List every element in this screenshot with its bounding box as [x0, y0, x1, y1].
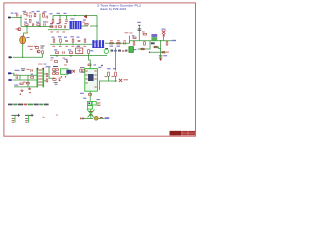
wire U1 out b	[44, 80, 46, 82]
buzzer B2	[25, 114, 34, 123]
LED D5	[104, 49, 108, 54]
transistor Q5 cross	[87, 109, 95, 118]
transistor Q6 block	[129, 47, 134, 53]
junction node D	[160, 40, 161, 41]
resistor R9	[59, 26, 62, 28]
resistor R33	[46, 74, 48, 77]
junction H1	[115, 80, 116, 81]
wire node A vertical	[20, 15, 22, 27]
wire F rail2	[13, 79, 36, 81]
label C5	[43, 21, 46, 22]
label F left	[14, 85, 18, 86]
label OUT arrow	[172, 40, 176, 41]
wire G down	[49, 67, 53, 78]
label F top2	[27, 69, 30, 70]
wire X3 to rail1	[12, 73, 14, 75]
label R22	[58, 36, 61, 37]
marker G0	[53, 66, 58, 68]
resistor R2	[34, 13, 36, 16]
border frame	[4, 3, 196, 136]
transistor Q3 block	[87, 101, 96, 105]
resistor R44	[53, 79, 56, 81]
resistor R5	[37, 24, 40, 26]
resistor R46	[144, 42, 146, 45]
resistor R48	[88, 64, 91, 66]
resistor R38 marks	[97, 103, 101, 105]
title block fill	[170, 131, 196, 135]
diode D4 mark	[163, 35, 165, 36]
arrow left mark	[149, 51, 151, 53]
label X1	[11, 13, 14, 14]
junction E1b	[72, 44, 73, 45]
value C5	[46, 21, 48, 22]
label R15	[110, 46, 114, 47]
label R26	[68, 49, 71, 50]
capacitor C14	[16, 76, 17, 79]
resistor R4	[25, 24, 28, 26]
wire stub B1	[52, 16, 54, 20]
note text seg7	[39, 104, 43, 106]
resistor R19	[35, 47, 38, 49]
label R3	[37, 11, 40, 12]
wire up to U3	[129, 36, 131, 44]
wire F rail3	[14, 86, 37, 88]
ground GND1	[159, 58, 162, 61]
IC U2 outline	[85, 69, 98, 92]
label output Q3	[97, 99, 100, 100]
resistor R1	[24, 13, 27, 15]
wire J2 rail	[105, 42, 130, 44]
label F c	[31, 74, 34, 75]
capacitor C16	[31, 69, 32, 71]
label R37	[113, 68, 116, 69]
value R22	[59, 46, 62, 47]
value Q1	[16, 28, 19, 29]
wire X1 to node A	[12, 17, 21, 19]
resistor R12	[143, 33, 146, 35]
capacitor C12	[63, 51, 64, 54]
wire H rail	[99, 80, 117, 82]
note text seg3	[18, 104, 24, 106]
IC U1 ladder	[37, 68, 44, 88]
pin dot G b	[65, 76, 66, 77]
note text seg4	[24, 104, 28, 106]
label LA1	[27, 37, 30, 38]
wire mid rail 2	[151, 51, 166, 53]
wire R27 to U2	[89, 56, 91, 63]
wire F v2	[27, 75, 29, 87]
ground GND2	[20, 89, 23, 92]
connector X3 arrow	[8, 72, 12, 74]
value R8	[51, 31, 54, 32]
value R7	[58, 23, 61, 24]
resistor R1b	[29, 19, 31, 22]
label note E	[64, 64, 67, 65]
resistor R8	[50, 26, 53, 28]
title block divider lines	[181, 131, 195, 135]
wire C rail	[130, 40, 172, 42]
label R1	[23, 11, 26, 12]
wire top rail	[53, 15, 97, 17]
resistor R40b	[56, 69, 59, 71]
transistor Q2	[37, 50, 40, 53]
junction node E	[22, 57, 23, 58]
resistor R41	[53, 73, 56, 75]
supply flag VCC1	[138, 25, 141, 26]
marker G2	[80, 67, 85, 69]
LED D2	[89, 112, 93, 116]
value R25	[56, 55, 59, 56]
label C6	[64, 13, 67, 14]
title block dark section	[170, 131, 182, 135]
label R36 value	[105, 76, 108, 77]
resistor R42	[80, 69, 82, 72]
label C18	[163, 55, 167, 56]
lamp LA1	[20, 36, 26, 44]
label D1	[83, 20, 86, 21]
label C left	[132, 35, 135, 36]
resistor R43	[83, 69, 85, 72]
marker D1	[41, 46, 45, 48]
diode D1	[84, 15, 87, 18]
wire Q2 down	[40, 54, 43, 57]
value R3	[42, 12, 45, 13]
resistor R13	[154, 46, 157, 48]
wire down to T1	[24, 27, 28, 37]
label E row2b2	[63, 58, 66, 59]
wire VCC1 down	[138, 27, 140, 41]
junction B rail b	[74, 15, 75, 16]
capacitor C5	[44, 23, 45, 26]
marker G1	[53, 71, 56, 73]
wire mid right	[138, 41, 151, 49]
label R23	[71, 36, 74, 37]
wire rail E2	[50, 55, 107, 57]
connector X1 input arrow	[8, 17, 12, 19]
wire R27 stub	[88, 54, 90, 56]
solder blob	[26, 32, 28, 34]
wire U2 bottom	[89, 91, 91, 97]
mark row1 d	[122, 50, 124, 52]
junction A rail	[26, 26, 27, 27]
connector X4 arrow	[8, 79, 12, 81]
junction node B	[39, 26, 40, 27]
resistor R47	[166, 42, 168, 45]
label K1 pins	[53, 78, 56, 79]
wire branch E	[153, 47, 161, 49]
wire F rail1	[13, 74, 37, 76]
value R9	[63, 31, 66, 32]
junction E1a	[60, 44, 61, 45]
transistor Q1	[18, 28, 21, 31]
mark row1 b	[114, 50, 117, 52]
power dot 1	[20, 94, 21, 95]
resistor R18	[141, 48, 144, 50]
label P1 top	[77, 46, 80, 47]
label C7	[57, 23, 60, 24]
capacitor C18	[159, 56, 163, 57]
note text seg2	[13, 104, 17, 106]
ground GND3	[28, 87, 31, 90]
label X3	[15, 70, 20, 71]
resistor R35	[88, 94, 91, 96]
label X6 value	[124, 79, 129, 80]
label C3	[44, 11, 47, 12]
wire X2 down	[163, 34, 165, 41]
svg-text:drawn by PVE 2004: drawn by PVE 2004	[100, 7, 127, 11]
wire node C vertical	[96, 16, 98, 41]
wire jog to J2 rail	[129, 41, 131, 44]
note text seg5	[28, 104, 33, 106]
resistor R3	[43, 14, 45, 17]
value row C a	[125, 32, 129, 33]
resistor R20	[42, 51, 44, 54]
label R25	[54, 49, 57, 50]
label J2 left	[93, 42, 97, 43]
note text seg6	[34, 104, 39, 106]
wire stub B3	[66, 16, 68, 20]
wire to GND1	[160, 52, 162, 58]
wire stub B2	[59, 16, 61, 20]
capacitor C13	[66, 60, 67, 63]
label T2 bottom	[151, 42, 155, 44]
resistor R11	[133, 37, 136, 39]
resistor R25	[55, 52, 58, 54]
label E row2b	[65, 59, 68, 60]
value R1	[26, 15, 29, 16]
label R4	[24, 22, 27, 23]
resistor R36	[108, 72, 110, 76]
junction B rail a	[59, 15, 60, 16]
wire row D	[13, 56, 40, 58]
value C7	[57, 31, 59, 32]
capacitor C4	[32, 23, 33, 26]
label F b	[23, 82, 26, 83]
resistor R16	[117, 42, 120, 44]
value C6	[65, 23, 67, 24]
resistor R24	[84, 39, 86, 42]
pin dot G a	[61, 76, 62, 77]
label K1b pins	[59, 78, 62, 79]
resistor R7	[59, 20, 61, 23]
mark row1 c	[118, 50, 121, 52]
label S1 pins	[83, 22, 85, 23]
value row C b	[130, 32, 133, 33]
wire output left	[81, 117, 94, 119]
value R6	[51, 23, 54, 24]
label R2	[32, 11, 35, 12]
resistor R32	[26, 82, 29, 84]
wire U2 top	[89, 63, 91, 69]
resistor R15	[110, 42, 113, 44]
label R27	[90, 50, 93, 51]
value C11	[78, 46, 80, 47]
label P3 value	[30, 49, 33, 50]
diode D3	[59, 79, 61, 81]
label R16	[117, 46, 121, 47]
value R24	[84, 46, 87, 47]
value R26	[70, 55, 73, 56]
label U2 left	[81, 72, 84, 73]
resistor R34	[46, 79, 48, 82]
wire bottom rail B	[48, 29, 70, 31]
label X2	[162, 29, 166, 30]
label R37 value	[112, 76, 115, 77]
transistor Q4 block	[87, 106, 92, 109]
label R6	[50, 13, 53, 14]
svg-text:2-Tone Alarm Sounder PL2: 2-Tone Alarm Sounder PL2	[97, 3, 141, 7]
capacitor C7b	[64, 25, 65, 28]
label note D	[38, 64, 43, 65]
resistor R26	[69, 52, 72, 54]
capacitor C6	[65, 20, 68, 21]
resistor R37	[115, 72, 117, 76]
wire row A lower	[21, 26, 53, 28]
wire F v1	[19, 75, 21, 80]
value R21	[53, 46, 56, 47]
capacitor C7	[55, 25, 56, 28]
label R21	[52, 37, 55, 38]
junction node B2	[26, 26, 27, 27]
tiny note mark 2	[43, 117, 45, 118]
label P2 value	[34, 46, 38, 47]
buzzer B1	[12, 114, 21, 123]
label G left	[50, 60, 52, 61]
resistor R14	[162, 51, 165, 53]
label Q6	[134, 49, 137, 50]
label U1	[46, 66, 51, 67]
value R23	[72, 46, 75, 47]
DIP switch S1	[70, 21, 82, 29]
wire H down	[98, 81, 100, 90]
value R14r	[166, 52, 169, 53]
label U2	[94, 64, 97, 65]
wire U1 out a	[44, 73, 46, 75]
wire S1 out	[82, 25, 89, 27]
capacitor C11	[78, 40, 81, 41]
marker G3	[54, 83, 58, 85]
power dot 2	[29, 92, 30, 93]
label note D2	[44, 64, 47, 65]
crystal X2	[162, 30, 166, 34]
wire output right	[98, 117, 104, 119]
value C10	[66, 46, 68, 47]
mark row1 a	[111, 50, 114, 52]
note text seg8	[44, 104, 49, 106]
relay K1 coil	[60, 69, 71, 75]
wire U2 to output stage	[89, 97, 91, 101]
value R4	[25, 19, 28, 20]
resistor R22	[60, 39, 62, 42]
label U2 right	[98, 67, 101, 68]
crystal X6	[119, 79, 122, 82]
label F a	[16, 74, 19, 75]
resistor R45	[133, 42, 135, 45]
label output C	[83, 98, 86, 99]
resistor R28	[54, 61, 57, 63]
label R8	[50, 23, 53, 24]
resistor R27	[88, 50, 90, 54]
capacitor C2	[30, 15, 31, 18]
label SL1	[105, 117, 110, 119]
value C2	[29, 12, 31, 13]
label P1 value	[28, 46, 34, 47]
wire R10 to node C	[90, 25, 97, 27]
connector J2	[92, 40, 104, 48]
resistor R31	[20, 83, 23, 85]
capacitor C9	[124, 42, 125, 45]
label C1	[15, 13, 18, 14]
crystal X5	[72, 70, 75, 73]
mark row1 e	[125, 50, 127, 52]
wire LA1 down	[22, 44, 24, 57]
label C10	[64, 37, 67, 38]
resistor R10	[85, 23, 88, 25]
wire rail E1	[50, 43, 92, 45]
label R7	[57, 13, 60, 14]
solder blob 2	[94, 116, 98, 120]
capacitor C17	[138, 29, 142, 30]
value R16	[117, 40, 120, 41]
resistor R41b	[56, 73, 59, 75]
value R15	[110, 40, 113, 41]
label R5	[36, 22, 39, 23]
wire R36 stub	[108, 76, 110, 81]
resistor R40	[53, 69, 56, 71]
wire node B vertical	[39, 14, 41, 27]
resistor R6	[52, 20, 54, 23]
tiny note mark	[56, 115, 58, 116]
label U2 botleft	[80, 93, 84, 94]
transformer T2	[151, 34, 157, 40]
potentiometer P1	[76, 48, 83, 54]
wire node D down	[160, 41, 162, 53]
label VCC1	[137, 22, 141, 23]
resistor R21	[53, 39, 55, 42]
connector X2 arrow	[9, 56, 13, 58]
label R36	[107, 68, 111, 69]
resistor R30	[31, 77, 34, 79]
resistor R23	[72, 39, 74, 42]
capacitor C10	[65, 40, 68, 41]
pin dot H	[101, 65, 103, 67]
junction node A	[20, 17, 21, 18]
capacitor C15 marks	[81, 117, 84, 119]
junction node C	[96, 25, 97, 26]
note text seg1	[8, 104, 13, 106]
wire R37 stub	[115, 76, 117, 81]
value R11b	[142, 31, 145, 32]
junction E2b	[70, 55, 71, 56]
capacitor C1	[17, 14, 18, 17]
label E row2a	[51, 57, 54, 58]
label C11	[77, 37, 80, 38]
wire long vertical	[115, 48, 117, 71]
junction E2a	[56, 55, 57, 56]
capacitor C3	[46, 16, 47, 19]
marker F top1	[21, 69, 25, 71]
resistor R39 mark	[100, 117, 103, 119]
label S1	[71, 18, 75, 19]
value C9	[124, 40, 126, 41]
